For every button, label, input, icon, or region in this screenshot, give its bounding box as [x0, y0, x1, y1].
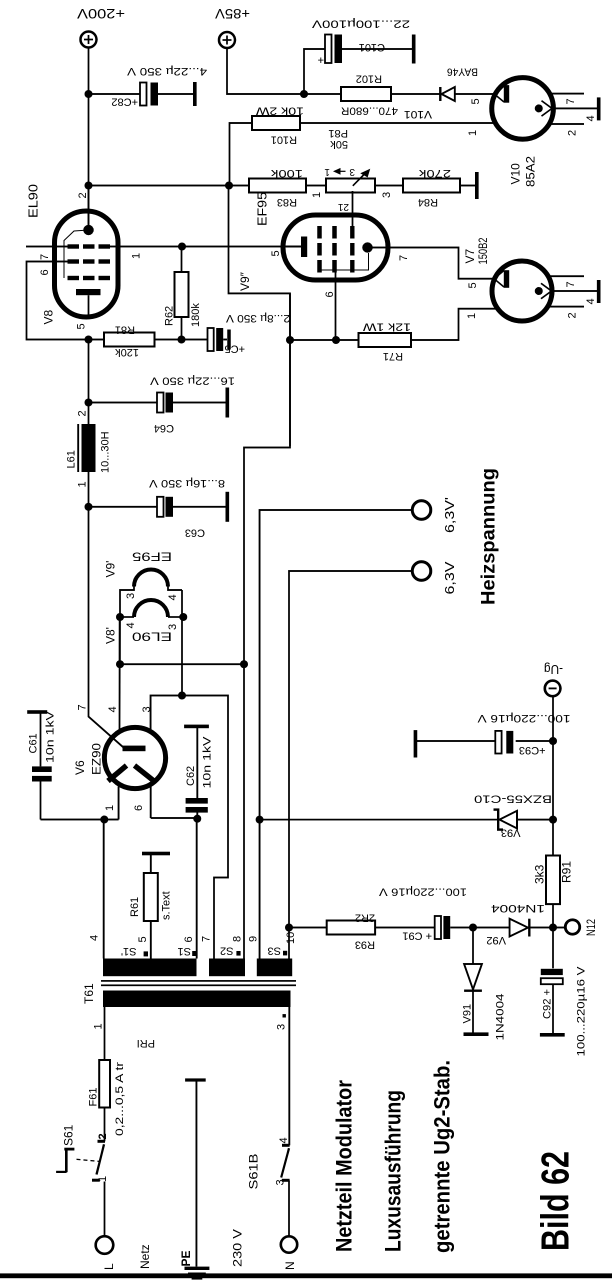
capacitor C93: [549, 737, 557, 745]
svg-text:L: L: [102, 1263, 116, 1270]
svg-text:R84: R84: [418, 196, 438, 208]
svg-text:2R2: 2R2: [355, 912, 375, 924]
EF95 anode bar: [301, 237, 307, 258]
diode V92 1N4004: [510, 919, 528, 937]
svg-text:3: 3: [381, 192, 393, 198]
terminal N12: [549, 924, 557, 932]
svg-text:10: 10: [285, 932, 297, 944]
choke L61: [88, 471, 90, 507]
heater riser bus: [120, 663, 244, 665]
page edge black bar (left): [0, 1273, 612, 1278]
svg-text:3: 3: [167, 624, 179, 630]
svg-text:+: +: [318, 54, 324, 66]
svg-text:C62: C62: [185, 766, 197, 786]
svg-text:1: 1: [97, 1176, 109, 1182]
svg-text:V101: V101: [404, 108, 432, 120]
capacitor C82: [85, 90, 93, 98]
svg-text:V6: V6: [73, 760, 87, 775]
capacitor C92: [552, 928, 554, 969]
wire N to S61B: [288, 1181, 290, 1237]
svg-text:180k: 180k: [190, 303, 202, 327]
svg-text:3: 3: [275, 1179, 287, 1185]
screen node riser: [290, 339, 336, 341]
svg-text:8: 8: [232, 936, 244, 942]
svg-text:R71: R71: [383, 350, 403, 362]
svg-text:22...100µ100V: 22...100µ100V: [311, 18, 410, 30]
svg-text:470...680R: 470...680R: [341, 105, 398, 117]
svg-text:C61: C61: [28, 733, 40, 753]
svg-text:3: 3: [349, 166, 355, 177]
svg-text:BAY46: BAY46: [447, 66, 478, 78]
V6 anode plates: [108, 766, 127, 782]
svg-text:R62: R62: [164, 306, 176, 326]
capacitor C64: [85, 399, 93, 407]
svg-text:T61: T61: [82, 983, 96, 1004]
svg-text:4...22µ 350 V: 4...22µ 350 V: [126, 65, 207, 77]
end bar at C61: [27, 710, 47, 714]
svg-text:85A2: 85A2: [524, 156, 538, 187]
svg-text:270k: 270k: [418, 167, 451, 179]
svg-text:S1: S1: [178, 945, 191, 957]
transformer secondary S3 bar: [257, 959, 292, 977]
svg-text:5: 5: [137, 936, 149, 942]
svg-text:50k: 50k: [330, 138, 348, 150]
resistor R93: [289, 927, 327, 929]
V7 pin 7 stub: [551, 275, 585, 277]
svg-text:4: 4: [167, 594, 179, 600]
svg-text:2: 2: [567, 130, 579, 136]
node EL90 plate junction: [85, 336, 93, 344]
resistor R101: [252, 116, 300, 130]
EL90 cathode wire pin 2 to +200V rail: [88, 186, 90, 231]
resistor R71: [336, 339, 359, 341]
svg-text:5: 5: [76, 323, 88, 329]
V6 cathode bar: [123, 746, 146, 752]
svg-text:V92: V92: [486, 934, 506, 946]
svg-text:8...16µ 350 V: 8...16µ 350 V: [148, 477, 225, 489]
PE earth conductor wire: [195, 1080, 197, 1267]
EL90 grid1 stub pin 7: [26, 246, 68, 248]
wire L61 to C64 node: [88, 340, 90, 425]
EL90 grid1 dashed: [68, 244, 111, 248]
EL90 anode wire pin 5: [88, 295, 90, 317]
end bar at C64: [226, 388, 230, 418]
svg-text:7: 7: [77, 704, 89, 710]
-Ug rail: [552, 696, 554, 927]
svg-text:S61: S61: [62, 1124, 76, 1146]
svg-text:1: 1: [311, 192, 323, 198]
svg-text:PRI: PRI: [137, 1037, 155, 1049]
svg-text:100...220µ16 V: 100...220µ16 V: [576, 966, 588, 1057]
end bar at V10 pin 4: [597, 97, 601, 120]
svg-text:R91: R91: [560, 861, 574, 883]
svg-text:6: 6: [133, 805, 145, 811]
resistor R83: [249, 179, 306, 193]
end bar at R84: [475, 172, 479, 199]
svg-text:6,3V: 6,3V: [443, 561, 457, 595]
wire R83 to P81 pin 1: [306, 185, 326, 187]
svg-text:3k3: 3k3: [533, 864, 547, 884]
end bar at C5: [227, 330, 231, 350]
svg-text:2: 2: [97, 1133, 109, 1139]
branch wire to R101: [230, 123, 253, 186]
potentiometer P81: [326, 179, 375, 193]
svg-text:6,3V': 6,3V': [443, 497, 457, 533]
svg-text:PE: PE: [179, 1250, 193, 1266]
svg-text:R93: R93: [355, 939, 375, 951]
resistor R61 wire from S1 center tap pin 5: [150, 921, 152, 959]
wire L to S61: [104, 1182, 106, 1237]
svg-text:EF95: EF95: [255, 192, 270, 226]
svg-text:4: 4: [89, 935, 101, 941]
svg-text:R81: R81: [115, 324, 135, 336]
svg-text:1: 1: [131, 253, 143, 259]
svg-text:EL90: EL90: [132, 630, 172, 644]
node line V6 plate 2 / C62 / S1 pin 6: [151, 817, 198, 819]
end bar at C62: [184, 725, 209, 729]
terminal L (Netz): [96, 1236, 114, 1254]
tube V10 85A2 envelope: [492, 78, 554, 140]
heater EF95 V9' arc: [134, 570, 168, 587]
EF95 anode wire pin 5: [283, 246, 301, 248]
V10 pin 7 stub: [551, 93, 584, 95]
transformer secondary S1 bar: [103, 959, 197, 977]
wire S1 pin 4 to V6 plate node: [103, 820, 105, 959]
V7 cathode dot and fan: [535, 287, 543, 295]
resistor R62: [181, 317, 183, 340]
svg-text:V93: V93: [501, 827, 521, 839]
wire S3 pin 9 to 6,3V' terminal: [260, 510, 413, 959]
V10 cathode dot and fan: [535, 104, 543, 112]
svg-text:-Ug: -Ug: [544, 662, 563, 677]
svg-text:230 V: 230 V: [231, 1229, 245, 1267]
resistor R84: [403, 179, 460, 193]
tube V9'' EF95 envelope: [283, 215, 388, 280]
svg-text:V9': V9': [104, 561, 118, 578]
svg-text:S61B: S61B: [247, 1154, 261, 1190]
svg-text:4: 4: [107, 706, 119, 712]
svg-text:+200V: +200V: [76, 6, 125, 22]
svg-text:Bild 62: Bild 62: [535, 1151, 578, 1251]
diode V91 1N4004: [472, 929, 474, 964]
V7 pin 2 stub: [549, 306, 585, 308]
svg-text:Netz: Netz: [138, 1244, 152, 1269]
svg-text:R61: R61: [129, 897, 141, 917]
fuse F61: [104, 1060, 106, 1108]
svg-text:V9″: V9″: [238, 271, 252, 291]
EL90 grid2 dashed: [68, 259, 111, 263]
svg-text:3: 3: [141, 706, 153, 712]
svg-text:EF95: EF95: [132, 550, 172, 564]
svg-text:S3: S3: [268, 945, 281, 957]
PE chassis anchor bar: [185, 1078, 206, 1081]
svg-text:6: 6: [39, 269, 51, 275]
capacitor C61: [40, 781, 42, 820]
wire R61 to chassis bar: [150, 855, 152, 874]
earth ground symbol: [185, 1267, 210, 1270]
end bar at R61: [142, 852, 170, 856]
resistor R102: [304, 93, 341, 95]
svg-text:1N4004: 1N4004: [491, 902, 545, 914]
capacitor C5: [182, 339, 208, 341]
wire R101 to V10 pin 1: [300, 122, 496, 124]
tube V8 EL90 envelope: [55, 211, 119, 317]
transformer core lines: [101, 984, 296, 986]
svg-text:P81: P81: [328, 127, 348, 139]
svg-text:4: 4: [585, 115, 597, 121]
V7 pin 4 to chassis: [552, 290, 597, 292]
svg-text:S1': S1': [121, 945, 137, 957]
svg-text:2: 2: [77, 410, 89, 416]
svg-text:EZ90: EZ90: [90, 743, 104, 775]
svg-text:L61: L61: [66, 450, 78, 468]
V6 heater pin 4 wire: [119, 617, 121, 731]
wire R71 to V7 pin 1: [411, 309, 499, 340]
svg-text:N12: N12: [584, 919, 598, 936]
resistor R81: [89, 339, 105, 341]
EF95 grid1 dashed: [350, 226, 354, 273]
wire P81 pin 3 to R84: [375, 185, 403, 187]
svg-text:+ C91: + C91: [402, 930, 432, 942]
svg-text:C63: C63: [185, 527, 205, 539]
svg-text:21: 21: [337, 201, 349, 212]
end bar at V7 pin 4: [597, 280, 601, 303]
svg-text:5: 5: [470, 98, 482, 104]
svg-text:4: 4: [278, 1137, 290, 1143]
terminal 6,3V': [412, 501, 431, 520]
svg-text:100...220µ16 V: 100...220µ16 V: [477, 712, 571, 724]
node R81/R62/C5 junction: [178, 336, 186, 344]
capacitor C62: [196, 812, 198, 819]
svg-text:Netzteil Modulator: Netzteil Modulator: [332, 1080, 357, 1252]
svg-text:F61: F61: [88, 1088, 100, 1107]
svg-text:7: 7: [565, 281, 577, 287]
EF95 grid2 dashed: [332, 226, 336, 273]
svg-text:S2: S2: [220, 945, 233, 957]
EL90 grid3 dashed: [68, 276, 111, 280]
svg-text:V8': V8': [104, 627, 118, 644]
svg-text:1: 1: [93, 1023, 105, 1029]
switch S61: [92, 1179, 100, 1182]
tube V6 EZ90 envelope: [104, 727, 165, 788]
wire V6 plate pin 1: [118, 787, 120, 820]
svg-text:V7: V7: [463, 248, 477, 263]
EL90 anode bar: [76, 289, 101, 295]
transformer secondary S2 bar: [209, 959, 245, 977]
svg-text:2: 2: [77, 192, 89, 198]
svg-text:7: 7: [39, 254, 51, 260]
svg-text:R102: R102: [356, 73, 382, 85]
svg-text:150B2: 150B2: [476, 237, 490, 264]
terminal +85V: [219, 32, 235, 48]
svg-text:1: 1: [324, 166, 330, 177]
svg-text:+C93: +C93: [519, 744, 546, 756]
svg-text:1: 1: [467, 130, 479, 136]
wire P81 wiper to EF95 grid: [352, 191, 354, 227]
end bar at C92: [540, 1033, 565, 1037]
svg-text:6: 6: [183, 936, 195, 942]
svg-text:2: 2: [567, 312, 579, 318]
wire g1 node down to EF95 anode: [182, 246, 301, 248]
EL90 g3-cathode internal link: [64, 230, 89, 278]
svg-text:s.Text: s.Text: [161, 891, 173, 920]
wire S61 to fuse: [104, 1108, 106, 1142]
end bar at C82: [193, 82, 197, 106]
wire fuse to transformer pin 1: [104, 1007, 106, 1061]
terminal -Ug: [545, 681, 561, 697]
svg-text:9: 9: [248, 936, 260, 942]
svg-text:1: 1: [104, 805, 116, 811]
svg-text:Heizspannung: Heizspannung: [479, 468, 500, 605]
EL90 grid1 wire pin 1: [110, 246, 182, 248]
wire V6 plate pin 6: [150, 785, 152, 818]
heater bus to S2 pin 8: [244, 293, 290, 958]
svg-text:C101: C101: [359, 41, 385, 53]
end bar at C101: [412, 35, 416, 64]
terminal N: [281, 1236, 297, 1252]
heater EL90 V8' arc: [134, 600, 168, 617]
heater top rail: [119, 617, 121, 664]
svg-text:C92 +: C92 +: [542, 989, 554, 1019]
svg-text:R101: R101: [271, 134, 297, 146]
svg-text:12k 1W: 12k 1W: [362, 321, 411, 333]
EF95 grid2 wire pin 6: [335, 273, 337, 341]
heater bottom rail to V6 pin3 node: [181, 590, 183, 696]
diode V101 BAY46: [391, 93, 441, 95]
wire +85V to junction: [227, 48, 304, 94]
capacitor C101: [304, 49, 325, 94]
wire R84 to chassis: [460, 185, 475, 187]
EF95 grid3 dashed: [317, 226, 321, 273]
EL90 cathode dot: [83, 225, 93, 235]
svg-text:120k: 120k: [115, 346, 139, 358]
svg-text:N: N: [283, 1261, 297, 1270]
wire S3 pin 10 to 6,3V terminal: [289, 571, 413, 959]
wire S1 pin 6 to V6 plate 2 node: [196, 819, 198, 958]
terminal +200V: [81, 32, 97, 48]
svg-text:+85V: +85V: [214, 6, 250, 22]
switch S61 actuator linkage: [64, 1148, 74, 1151]
svg-text:6: 6: [324, 291, 336, 297]
wire S61B to transformer pin 3: [288, 1007, 290, 1146]
capacitor C63: [89, 506, 158, 508]
V6 cathode wire pin 7 to B+ rail: [89, 507, 124, 748]
svg-text:10n 1kV: 10n 1kV: [45, 710, 57, 763]
resistor R61: [144, 873, 158, 921]
transformer T61 primary winding bar: [103, 991, 291, 1008]
svg-text:10k 2W: 10k 2W: [255, 105, 304, 117]
node EL90 g1 / R62 / EF95 anode: [178, 243, 186, 251]
end bar at V91: [464, 1032, 489, 1036]
svg-text:10n 1kV: 10n 1kV: [202, 736, 214, 789]
svg-text:100k: 100k: [270, 167, 303, 179]
svg-text:7: 7: [398, 255, 410, 261]
svg-text:100...220µ16 V: 100...220µ16 V: [378, 886, 467, 898]
svg-text:2...8µ 350 V: 2...8µ 350 V: [225, 312, 290, 324]
zener V93 BZX55-C10: [549, 816, 557, 824]
V6 heater pin 3 wire: [151, 696, 228, 959]
svg-text:EL90: EL90: [26, 184, 41, 218]
resistor R91: [546, 856, 560, 905]
svg-text:5: 5: [270, 250, 282, 256]
end bar at C93: [414, 730, 418, 757]
V10 anode bar and fan: [504, 85, 509, 103]
EF95 cathode dot: [362, 242, 372, 252]
svg-text:V8: V8: [42, 309, 56, 324]
svg-text:7: 7: [201, 936, 213, 942]
svg-text:1: 1: [77, 481, 89, 487]
svg-text:4: 4: [585, 298, 597, 304]
svg-text:10...30H: 10...30H: [100, 431, 112, 473]
V10 pin 2 stub: [549, 123, 584, 125]
EF95 g3-cathode internal link: [322, 253, 369, 270]
svg-text:Luxusausführung: Luxusausführung: [381, 1090, 406, 1252]
svg-text:+C82: +C82: [111, 96, 138, 108]
svg-text:R83: R83: [277, 196, 297, 208]
svg-text:0,2...0,5 A tr: 0,2...0,5 A tr: [114, 1062, 126, 1136]
end bar at C63: [226, 492, 230, 522]
svg-text:3: 3: [276, 1024, 288, 1030]
EF95 cathode wire pin 7: [368, 248, 497, 279]
svg-text:V91: V91: [462, 1004, 474, 1024]
switch S61B: [282, 1179, 290, 1182]
svg-text:1N4004: 1N4004: [495, 994, 507, 1041]
link +200V branch to screen divider node: [229, 186, 291, 447]
capacitor C91: [375, 927, 435, 929]
EL90 screen tie wire: [27, 262, 89, 340]
svg-text:3: 3: [125, 593, 137, 599]
node line V6 plate 1 / C61 / S1 pin 4: [41, 819, 119, 821]
node S3 pin 10 junction: [285, 924, 293, 932]
svg-text:BZX55-C10: BZX55-C10: [474, 793, 552, 805]
svg-text:1: 1: [466, 313, 478, 319]
svg-text:5: 5: [467, 282, 479, 288]
V10 pin 4 to chassis: [553, 107, 597, 109]
svg-text:getrennte Ug2-Stab.: getrennte Ug2-Stab.: [430, 1060, 455, 1253]
svg-text:16...22µ 350 V: 16...22µ 350 V: [149, 375, 235, 387]
+200V branch down to divider: [89, 185, 250, 187]
V7 anode bar and fan: [504, 270, 509, 288]
svg-text:C64: C64: [154, 422, 174, 434]
tube V7 150B2 envelope: [492, 261, 552, 321]
svg-text:+C5: +C5: [225, 343, 246, 355]
svg-text:4: 4: [125, 622, 137, 628]
terminal 6,3V: [412, 562, 431, 581]
svg-text:7: 7: [565, 98, 577, 104]
+200V rail: [88, 47, 90, 230]
svg-text:V10: V10: [509, 163, 523, 185]
